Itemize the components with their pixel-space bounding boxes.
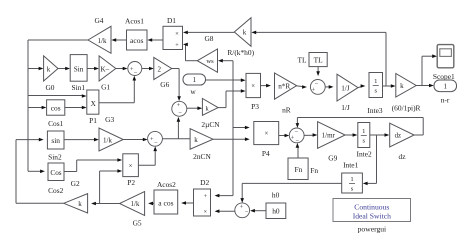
svg-text:1/J: 1/J [341, 84, 350, 92]
svg-text:a cos: a cos [158, 199, 173, 208]
svg-text:n*R: n*R [278, 82, 290, 90]
block Cos1 (cos) [47, 100, 65, 128]
svg-text:1/mr: 1/mr [322, 132, 336, 140]
svg-text:1: 1 [362, 128, 365, 135]
wire G3 to sum Smid [123, 138, 147, 142]
block Sin1 (Sin) [70, 55, 87, 92]
wire left rail vertical x=28 [27, 40, 29, 171]
gain 2nCN (k) [190, 129, 213, 161]
svg-text:G6: G6 [160, 80, 169, 89]
wire Sin1 to G1 [87, 67, 99, 71]
gain G4 (1/k, left-pointing) [88, 16, 111, 53]
wire 2nCN to P4 lower input [213, 137, 250, 141]
wire Inte1 output to sum Sh0 [240, 183, 341, 203]
wire 2uCN up to P3 lower input [218, 89, 246, 107]
wire sum SG9 to 1/mr [304, 133, 317, 137]
svg-text:G5: G5 [133, 218, 142, 227]
svg-text:Sin: Sin [74, 65, 84, 73]
wire Smid output to 2nCN with branch up [162, 117, 190, 139]
gain G9 (1/mr) [318, 122, 346, 163]
svg-text:G8: G8 [204, 34, 213, 43]
svg-text:−: − [245, 208, 249, 215]
block Sin2 (sin) [47, 131, 64, 162]
svg-text:Inte2: Inte2 [357, 150, 372, 159]
svg-text:×: × [129, 163, 133, 170]
svg-text:cos: cos [51, 103, 61, 112]
svg-text:1: 1 [374, 78, 377, 85]
gain G0 (k) [44, 56, 58, 92]
integrator Inte1 (1/s, flipped) [342, 160, 363, 193]
svg-text:P1: P1 [89, 116, 97, 125]
gain G2 (k, left-pointing) [64, 179, 88, 213]
gain G1 (K-) [99, 56, 116, 92]
wire P1 output up to sum S2 [99, 76, 136, 103]
block Cos2 (Cos) [48, 163, 64, 195]
wire G5 to G2 with branch up to P2 [91, 169, 122, 205]
svg-text:Continuous: Continuous [354, 202, 389, 211]
svg-text:Cos2: Cos2 [48, 186, 64, 195]
sum junction Sw [172, 101, 187, 116]
wire 1/J to Inte3 [358, 84, 365, 88]
wire sum S2 to G6 [142, 67, 154, 71]
gain 1/J [337, 74, 358, 112]
block Acos2 (a cos) [154, 180, 178, 214]
gain ws (left-pointing) [197, 48, 254, 72]
powergui block (Continuous Ideal Switch) [333, 199, 411, 234]
svg-text:1: 1 [192, 76, 196, 84]
svg-text:+: + [203, 193, 207, 200]
svg-text:×: × [251, 83, 255, 90]
svg-text:k: k [47, 65, 51, 73]
svg-text:R/(k*h0): R/(k*h0) [227, 48, 254, 57]
wire feedback bus to G8 [251, 31, 386, 35]
constant h0 [266, 191, 286, 219]
wire sum Sh0 to D2 lower port [215, 209, 235, 213]
wire Cos to P2 upper input [64, 158, 122, 171]
gain G6 (2) [154, 57, 172, 89]
wire G8 to D1 multiply port [183, 31, 234, 35]
svg-text:Fn: Fn [294, 165, 302, 174]
gain dz [390, 123, 414, 161]
wire G4 output to left rail [28, 39, 88, 41]
wire cos to P1 lower input [65, 106, 87, 110]
svg-text:k: k [243, 29, 247, 37]
divide D1 [163, 16, 183, 49]
svg-text:Ideal Switch: Ideal Switch [353, 212, 391, 221]
svg-text:G4: G4 [94, 16, 103, 25]
sum junction STL [310, 80, 325, 95]
wire a cos to G5 [148, 202, 154, 206]
wire vertical feedback from Inte3 output junction [385, 32, 387, 86]
svg-text:+: + [175, 42, 179, 49]
wire D2 to a cos [181, 201, 193, 205]
svg-text:2nCN: 2nCN [193, 152, 211, 161]
svg-text:×: × [203, 209, 207, 216]
svg-text:powergui: powergui [358, 225, 387, 234]
svg-text:K–: K– [101, 65, 110, 73]
svg-text:G3: G3 [105, 115, 114, 124]
wire w to P3 upper input with bus branch [206, 61, 246, 196]
sum junction Smid [148, 131, 163, 146]
svg-text:dz: dz [399, 152, 407, 161]
constant TL [297, 53, 327, 67]
wire h0 to sum Sh0 [250, 209, 266, 213]
svg-text:TL: TL [314, 55, 324, 64]
svg-text:s: s [374, 88, 377, 95]
gain (60/1pi)R (k) [392, 74, 421, 113]
svg-text:Inte1: Inte1 [343, 160, 358, 169]
svg-text:P2: P2 [127, 178, 135, 187]
svg-text:+: + [291, 134, 295, 141]
product P1 (X) [87, 90, 99, 125]
wire w-bus to ws input [218, 59, 233, 63]
svg-text:ws: ws [206, 58, 214, 65]
svg-text:1/J: 1/J [341, 103, 350, 112]
wire nR to sum STL [297, 85, 307, 89]
svg-text:1: 1 [443, 82, 447, 90]
gain G3 (1/k) [99, 115, 123, 151]
wire 1/mr to Inte2 [345, 133, 357, 137]
wire Inte2 to dz with branch down to Inte1 [363, 133, 390, 185]
svg-text:s: s [363, 138, 366, 145]
svg-text:w: w [190, 87, 196, 96]
wire w-bus down to D2 upper port [215, 194, 233, 198]
svg-text:nR: nR [282, 105, 291, 114]
wire sin to G3 [64, 138, 99, 142]
svg-text:G1: G1 [101, 82, 110, 91]
svg-text:−: − [294, 129, 298, 136]
svg-text:G9: G9 [328, 154, 337, 163]
svg-text:−: − [178, 109, 182, 116]
block Acos1 (acos) [125, 17, 147, 50]
wire P2 up to sum Smid [138, 146, 157, 165]
svg-text:sin: sin [51, 136, 60, 145]
wire Sw to 2uCN gain [187, 106, 202, 110]
svg-text:−: − [154, 140, 158, 147]
svg-text:1/k: 1/k [131, 201, 140, 208]
svg-text:×: × [264, 131, 268, 138]
gain 2uCN (k) [201, 99, 220, 130]
wire G2 up to sin [16, 138, 64, 204]
wire rail to cos [28, 106, 46, 110]
svg-text:D2: D2 [200, 178, 209, 187]
svg-text:acos: acos [130, 36, 143, 45]
svg-text:Inte3: Inte3 [367, 106, 382, 115]
wire feedback bus from dz [296, 118, 424, 136]
svg-text:D1: D1 [167, 16, 176, 25]
svg-text:k: k [78, 200, 82, 208]
svg-text:Cos: Cos [50, 169, 61, 177]
wire G6 down to sum Sw [172, 69, 181, 102]
svg-text:dz: dz [395, 133, 401, 140]
wire G1 to sum [116, 67, 128, 71]
wire ws to D1 divide port [183, 43, 197, 61]
svg-text:+: + [240, 204, 244, 211]
svg-text:−: − [134, 70, 138, 77]
svg-text:h0: h0 [272, 191, 280, 200]
integrator Inte3 (1/s) [367, 73, 382, 116]
wire P3 to nR [261, 84, 271, 88]
wire Fn up to sum SG9 [296, 143, 300, 158]
svg-text:k: k [194, 136, 198, 144]
gain G5 (1/k, left-pointing) [120, 192, 145, 228]
svg-text:Acos2: Acos2 [157, 180, 176, 189]
svg-text:+: + [311, 86, 315, 93]
wire rail to P1 upper input [28, 94, 87, 98]
svg-text:G0: G0 [45, 83, 54, 92]
product P4 [254, 122, 279, 158]
svg-text:G2: G2 [71, 179, 80, 188]
scope Scope1 [433, 45, 455, 81]
svg-text:P4: P4 [262, 149, 270, 158]
gain G8 (k, left-pointing) [204, 18, 251, 47]
svg-text:TL: TL [297, 55, 307, 64]
svg-text:Cos1: Cos1 [48, 119, 64, 128]
sum junction S2 [128, 62, 142, 77]
wire w-bus to P4 upper input [233, 126, 250, 130]
svg-text:Fn: Fn [310, 166, 318, 175]
svg-text:2: 2 [157, 65, 161, 73]
constant Fn [288, 158, 318, 180]
svg-text:n-r: n-r [441, 95, 450, 104]
integrator Inte2 (1/s) [357, 123, 372, 159]
svg-text:+: + [177, 102, 181, 109]
wire Inte3 to k gain [383, 84, 396, 88]
svg-text:h0: h0 [272, 207, 280, 216]
inport w (1) [183, 74, 206, 96]
svg-text:P3: P3 [251, 102, 259, 111]
wire G0 to Sin1 [58, 67, 70, 71]
product P2 [123, 154, 139, 187]
sum junction SG9 [289, 128, 304, 145]
svg-text:×: × [175, 31, 179, 38]
wire P4 to sum SG9 [279, 134, 290, 138]
wire D1 to acos [147, 38, 163, 42]
svg-text:(60/1pi)R: (60/1pi)R [392, 103, 421, 112]
svg-text:1/k: 1/k [103, 136, 112, 144]
gain nR (n*R) [275, 73, 297, 114]
svg-text:Acos1: Acos1 [125, 17, 144, 26]
wire sum STL to 1/J [325, 85, 333, 89]
svg-text:k: k [400, 82, 404, 90]
svg-text:2µCN: 2µCN [201, 120, 220, 129]
wire k to outport n-r with scope branch [416, 54, 437, 87]
svg-text:1: 1 [350, 176, 353, 183]
product P3 [246, 73, 261, 111]
svg-text:Sin1: Sin1 [72, 83, 86, 92]
wire rail to Cos [28, 170, 45, 174]
wire acos to G4 [111, 38, 126, 42]
wire rail to G0 [28, 67, 43, 71]
svg-text:s: s [351, 186, 354, 193]
svg-text:X: X [91, 100, 97, 108]
svg-text:1/k: 1/k [98, 37, 107, 45]
svg-text:Sin2: Sin2 [48, 153, 62, 162]
wire TL down to sum [316, 67, 320, 77]
divide D2 [194, 178, 211, 216]
sum junction Sh0 [235, 203, 250, 218]
outport n-r (1) [434, 80, 457, 104]
